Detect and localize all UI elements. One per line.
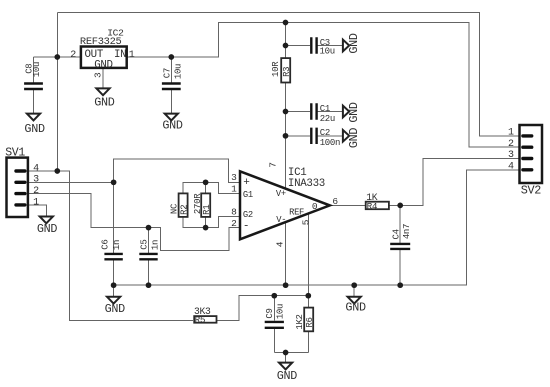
svg-text:4n7: 4n7	[402, 224, 412, 239]
svg-text:10u: 10u	[320, 47, 335, 57]
svg-text:C5: C5	[139, 239, 149, 249]
svg-text:GND: GND	[162, 118, 183, 132]
svg-text:R4: R4	[367, 201, 378, 212]
svg-text:4: 4	[33, 163, 39, 174]
svg-text:6: 6	[332, 196, 338, 207]
svg-text:10u: 10u	[276, 304, 286, 319]
svg-text:8: 8	[231, 207, 237, 218]
svg-text:1n: 1n	[151, 240, 161, 250]
svg-text:SV2: SV2	[521, 184, 542, 198]
svg-text:V-: V-	[276, 215, 286, 225]
svg-text:-: -	[243, 221, 250, 233]
svg-text:C9: C9	[265, 308, 275, 318]
svg-text:GND: GND	[94, 96, 115, 110]
svg-text:2: 2	[231, 218, 237, 229]
svg-text:GND: GND	[37, 222, 58, 236]
svg-text:1: 1	[33, 197, 39, 208]
svg-text:C6: C6	[101, 239, 111, 249]
svg-text:2: 2	[508, 139, 514, 150]
svg-text:GND: GND	[347, 128, 361, 149]
svg-text:1: 1	[231, 183, 237, 194]
svg-text:7: 7	[267, 162, 278, 168]
svg-text:C2: C2	[320, 128, 330, 138]
svg-text:3: 3	[508, 150, 514, 161]
svg-text:10u: 10u	[32, 62, 42, 77]
svg-text:1K2: 1K2	[295, 314, 305, 329]
svg-text:0: 0	[312, 201, 318, 212]
svg-text:+: +	[243, 177, 250, 189]
svg-text:5: 5	[300, 219, 311, 225]
svg-text:1: 1	[508, 128, 514, 139]
svg-text:3: 3	[92, 72, 103, 78]
svg-text:C4: C4	[391, 229, 401, 239]
svg-text:100n: 100n	[320, 138, 340, 148]
svg-text:GND: GND	[347, 33, 361, 54]
svg-text:3: 3	[33, 175, 39, 186]
svg-text:4: 4	[508, 162, 514, 173]
svg-text:R6: R6	[305, 317, 315, 327]
svg-text:10R: 10R	[271, 61, 281, 77]
svg-text:4: 4	[275, 241, 286, 247]
svg-text:R3: R3	[282, 67, 292, 77]
svg-text:C7: C7	[162, 68, 172, 78]
svg-text:V+: V+	[276, 189, 286, 199]
svg-text:2: 2	[70, 50, 76, 61]
svg-text:G1: G1	[243, 190, 253, 200]
svg-text:2: 2	[33, 186, 39, 197]
svg-text:22u: 22u	[320, 114, 335, 124]
svg-text:NC: NC	[170, 203, 180, 214]
svg-text:1n: 1n	[112, 240, 122, 250]
svg-text:G2: G2	[243, 210, 253, 220]
svg-text:C1: C1	[320, 104, 330, 114]
svg-text:GND: GND	[105, 302, 126, 316]
svg-text:GND: GND	[277, 369, 298, 383]
svg-text:REF: REF	[289, 208, 304, 218]
svg-text:1: 1	[129, 50, 135, 61]
svg-text:R2: R2	[179, 205, 189, 215]
svg-text:R5: R5	[195, 315, 206, 326]
svg-text:REF3325: REF3325	[80, 36, 122, 48]
svg-text:GND: GND	[24, 122, 45, 136]
svg-text:3: 3	[231, 172, 237, 183]
svg-text:INA333: INA333	[288, 178, 325, 190]
svg-text:GND: GND	[345, 301, 366, 315]
svg-text:10u: 10u	[174, 64, 184, 79]
svg-text:R1: R1	[202, 205, 212, 215]
svg-text:IN: IN	[114, 49, 126, 61]
svg-text:SV1: SV1	[5, 147, 25, 160]
svg-text:GND: GND	[347, 102, 361, 123]
svg-text:GND: GND	[94, 59, 113, 71]
